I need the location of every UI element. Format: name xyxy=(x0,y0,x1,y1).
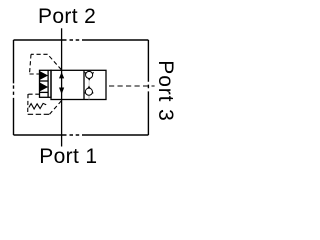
pilot piston box xyxy=(40,70,52,97)
pilot line to spring chamber: bottom run xyxy=(28,113,50,115)
valve main body box xyxy=(51,70,106,99)
check valve 1 seat xyxy=(85,72,94,80)
enclosure boundary left edge (chain line) xyxy=(13,40,15,135)
pilot piston divider 1 xyxy=(40,80,49,82)
pilot arrow 2 (solid triangle) xyxy=(40,83,48,92)
pilot line from port 2: left drop xyxy=(30,54,32,74)
pilot arrow 1 (solid triangle) xyxy=(40,71,48,80)
check valve 1 ball xyxy=(86,71,93,78)
pilot line to spring chamber: left drop xyxy=(27,94,29,114)
flow arrow down xyxy=(59,88,64,95)
check valve 2 ball xyxy=(85,88,92,95)
pilot line to spring chamber: stub from pilot box xyxy=(28,93,40,95)
wire: Port 2 / Port 1 flow line through valve xyxy=(61,28,63,146)
enclosure boundary bottom edge (chain line) xyxy=(14,134,149,136)
valve position divider xyxy=(83,70,85,99)
pilot line to port 3 (dashed) xyxy=(109,85,155,87)
wire between check valves (faint) xyxy=(88,80,90,86)
pilot line from port 2: top run xyxy=(31,53,48,55)
flow arrow up xyxy=(59,72,64,78)
enclosure boundary right edge (chain line) xyxy=(147,40,149,135)
check valve 2 seat xyxy=(85,87,93,94)
pilot piston divider 2 xyxy=(40,91,49,93)
wire check valve 2 to bottom rail (faint) xyxy=(88,96,90,100)
spring (zigzag) xyxy=(29,103,46,109)
pilot piston seat line xyxy=(47,70,49,97)
pilot line from port 2: stub into pilot box xyxy=(30,73,40,75)
enclosure boundary top edge (chain line) xyxy=(14,39,149,41)
pilot line from port 2: diagonal to flow line xyxy=(48,54,62,69)
pilot line to spring chamber: diagonal to port 1 line xyxy=(50,101,62,114)
svg-text:Port 3: Port 3 xyxy=(154,60,177,121)
svg-text:Port 1: Port 1 xyxy=(39,145,97,168)
svg-text:Port 2: Port 2 xyxy=(38,5,96,28)
